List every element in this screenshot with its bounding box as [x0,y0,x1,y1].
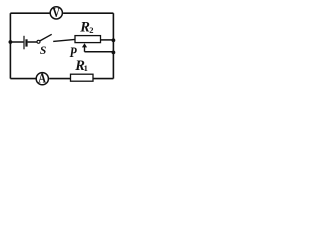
voltmeter V [50,5,62,21]
wire top left (to voltmeter) [10,12,50,14]
wire bottom right (right rail to R1) [93,78,113,80]
battery cell [24,36,27,50]
wire bottom left (ammeter to left rail) [10,78,35,80]
wire R2 right to rail [101,39,114,41]
wire battery to switch [28,41,37,43]
node junction R2/rail [112,38,116,42]
svg-text:S: S [40,45,46,57]
ammeter A [36,70,48,85]
wire middle left (left rail to battery) [10,41,23,43]
wire top right (voltmeter to right rail) [63,12,113,14]
svg-text:A: A [38,70,46,85]
node junction wiper/rail [112,51,116,55]
wire right rail [112,13,114,78]
svg-text:1: 1 [84,63,88,73]
slider P arrow (wiper) [82,43,87,52]
node junction on left rail [9,40,13,44]
svg-text:V: V [52,5,60,21]
svg-text:2: 2 [89,25,93,35]
wire left rail [9,13,11,78]
resistor R1 [71,74,94,81]
resistor R2 (rheostat track) [75,36,101,43]
svg-text:P: P [70,44,78,61]
wire switch to R2 [53,39,75,41]
wire wiper to rail [85,51,114,53]
wire bottom middle (R1 to ammeter) [49,78,70,80]
switch S [37,34,52,43]
